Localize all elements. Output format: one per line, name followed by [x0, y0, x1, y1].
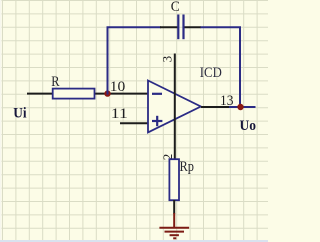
op-amp pins 3 and 2 vertical line — [174, 54, 176, 160]
wire: output to Uo — [229, 106, 256, 108]
node: junction at pin 10 — [104, 90, 110, 96]
svg-text:11: 11 — [111, 106, 128, 122]
svg-text:10: 10 — [110, 79, 126, 95]
op-amp inverting (minus) symbol — [152, 93, 162, 95]
svg-text:Ui: Ui — [13, 105, 26, 121]
wire: feedback from capacitor down to output node — [201, 27, 241, 107]
op-amp non-inverting (plus) symbol — [152, 116, 162, 126]
svg-text:3: 3 — [160, 56, 175, 63]
Rp bottom pin — [173, 200, 175, 214]
svg-text:R: R — [51, 74, 59, 90]
svg-text:C: C — [171, 0, 180, 15]
wire: output pin 13 — [201, 106, 230, 108]
capacitor C left pin — [160, 26, 178, 28]
svg-text:Rp: Rp — [180, 159, 195, 175]
resistor R1 body — [53, 89, 95, 99]
svg-text:Uo: Uo — [240, 118, 257, 134]
wire: feedback from node 10 up to capacitor — [108, 27, 162, 94]
wire: pin 11 stub (non-inverting input) — [120, 122, 148, 124]
node: output junction pin 13 — [237, 104, 243, 110]
ground symbol bars — [159, 228, 189, 239]
capacitor C plates — [178, 15, 183, 40]
resistor Rp body — [169, 159, 179, 200]
op-amp U1 (ICD) triangle — [148, 81, 201, 133]
capacitor C right pin — [185, 26, 202, 28]
wire: Ui input to inverting node — [27, 93, 148, 95]
ground stem — [173, 213, 175, 228]
svg-text:ICD: ICD — [200, 65, 222, 81]
